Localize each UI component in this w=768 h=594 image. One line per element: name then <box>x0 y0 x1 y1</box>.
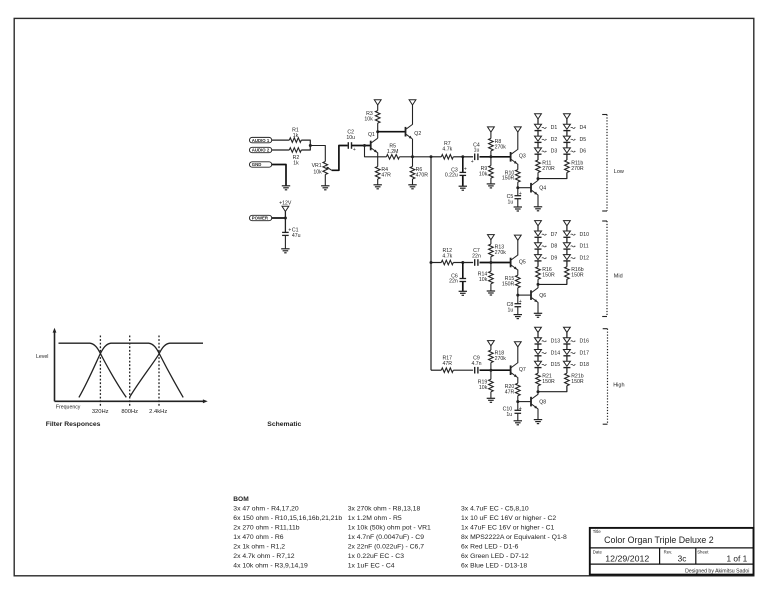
bracket High <box>603 329 625 425</box>
wire Q5 emitter to R15 <box>517 270 519 276</box>
svg-text:D8: D8 <box>551 244 558 250</box>
svg-text:Q7: Q7 <box>519 367 526 373</box>
wire R8 to node <box>490 151 492 157</box>
svg-text:Level: Level <box>36 354 48 360</box>
wire AUDIO1 to R1 <box>272 139 290 141</box>
graph dotted line 320Hz <box>99 336 101 406</box>
label BOM <box>233 496 249 503</box>
svg-text:Filter Responces: Filter Responces <box>46 421 101 428</box>
svg-text:150R: 150R <box>502 176 515 182</box>
node feed mid <box>430 261 433 264</box>
BOM column3 line 7 <box>461 563 527 570</box>
svg-text:1x 10 uF EC 16V or higher - C2: 1x 10 uF EC 16V or higher - C2 <box>461 515 556 522</box>
svg-text:47R: 47R <box>381 172 391 178</box>
svg-text:6x Green LED - D7-12: 6x Green LED - D7-12 <box>461 553 529 560</box>
svg-text:Designed by Akimitsu Sadoi: Designed by Akimitsu Sadoi <box>685 568 749 574</box>
node Q8 collector <box>537 390 540 393</box>
wire Q1 collector to Q2 base <box>378 131 406 133</box>
capacitor C5 <box>507 191 522 205</box>
graph X axis <box>55 399 208 403</box>
svg-text:D10: D10 <box>580 232 590 238</box>
resistor R7 <box>441 141 453 159</box>
title block rev text <box>678 553 687 563</box>
svg-text:2x 1k ohm - R1,2: 2x 1k ohm - R1,2 <box>233 544 285 551</box>
wire R11b down <box>566 173 568 179</box>
svg-text:D13: D13 <box>551 339 561 345</box>
wire D13 cathode <box>537 344 539 350</box>
node C6 <box>461 261 464 264</box>
wire R16 down <box>537 279 539 284</box>
curve low-pass <box>59 343 127 397</box>
BOM column2 line 1 <box>348 506 421 513</box>
wire C7 to Q5 base <box>480 262 511 264</box>
ground under Q4 <box>534 207 542 211</box>
BOM column3 line 3 <box>461 525 555 532</box>
svg-text:4.7n: 4.7n <box>471 361 481 367</box>
resistor R11 <box>536 160 555 173</box>
svg-text:10k: 10k <box>313 170 322 176</box>
wire C6 node to C7 <box>463 262 473 264</box>
svg-text:10k: 10k <box>479 277 488 283</box>
svg-text:270k: 270k <box>495 144 507 150</box>
wire VR1 to ground <box>324 175 326 186</box>
wire R12 to C6 node <box>453 262 463 264</box>
wire C4 to Q3 base <box>480 156 511 158</box>
BOM column2 line 3 <box>348 525 431 532</box>
svg-text:Q4: Q4 <box>539 185 546 191</box>
ground under R19 <box>487 398 495 402</box>
resistor R12 <box>441 248 453 265</box>
svg-text:D16: D16 <box>580 339 590 345</box>
node Q4 base <box>516 186 519 189</box>
svg-text:D11: D11 <box>580 244 589 250</box>
wire R9 to ground <box>490 178 492 184</box>
potentiometer VR1 <box>312 162 332 176</box>
wire joining mid LED strings <box>538 279 567 284</box>
transistor Q7 <box>511 363 526 378</box>
wire D9 to R16 <box>537 261 539 267</box>
BOM column1 line 4 <box>233 534 283 541</box>
svg-text:22n: 22n <box>449 279 458 285</box>
power symbol above Q5 <box>514 235 521 240</box>
svg-text:4.7k: 4.7k <box>442 147 452 153</box>
ground under R6 <box>408 185 416 189</box>
wire D10 cathode <box>566 237 568 243</box>
svg-text:270k: 270k <box>495 356 507 362</box>
wire D3 to R11 <box>537 154 539 160</box>
svg-text:Q1: Q1 <box>368 132 375 138</box>
LED D16 <box>563 338 589 345</box>
LED D2 <box>535 136 558 143</box>
power symbol above R3 <box>374 100 381 105</box>
ground under C1 <box>281 249 289 253</box>
wire V+ to R3 <box>377 105 379 111</box>
svg-text:2x 270 ohm - R11,11b: 2x 270 ohm - R11,11b <box>233 525 299 532</box>
wire R2 to node <box>301 146 310 151</box>
svg-text:+12V: +12V <box>279 200 292 206</box>
resistor R3 <box>364 111 380 123</box>
bracket Mid <box>602 221 622 317</box>
title block sheet text <box>727 553 748 563</box>
wire R10 to C5 <box>517 182 519 196</box>
connector AUDIO 2 <box>250 147 272 152</box>
LED D12 <box>563 255 589 262</box>
svg-text:1 of 1: 1 of 1 <box>727 553 748 563</box>
wire C5 to ground <box>517 199 519 207</box>
svg-text:2.4kHz: 2.4kHz <box>149 409 167 415</box>
node feed low <box>430 155 433 158</box>
wire R4 to ground <box>377 179 379 185</box>
capacitor C6 <box>449 263 466 285</box>
wire Q8 emitter to ground <box>537 409 539 420</box>
resistor R9 <box>479 157 493 178</box>
wire D1 cathode <box>537 131 539 137</box>
svg-text:Low: Low <box>614 169 624 175</box>
title block label Title <box>593 529 602 534</box>
ground under R14 <box>487 291 495 295</box>
transistor Q2 <box>406 124 422 139</box>
svg-text:1u: 1u <box>474 148 480 154</box>
wire V+ to D13 <box>537 332 539 337</box>
resistor R4 <box>375 167 391 180</box>
graph label Level <box>36 354 48 360</box>
wire Q7 emitter to R20 <box>517 377 519 383</box>
node C3 <box>461 155 464 158</box>
svg-text:47R: 47R <box>505 389 515 395</box>
connector POWER <box>250 215 272 220</box>
wire node to Q8 base <box>518 401 531 403</box>
graph dotted line 2.4kHz <box>158 336 160 406</box>
svg-text:150R: 150R <box>502 281 515 287</box>
wire Q2 node to R6 <box>412 157 414 167</box>
resistor R13 <box>489 240 507 257</box>
svg-text:150R: 150R <box>571 273 584 279</box>
wire R21b down <box>566 386 568 392</box>
svg-text:12/29/2012: 12/29/2012 <box>605 553 649 563</box>
wire R15 to C8 <box>517 288 519 304</box>
node Q4 collector <box>537 177 540 180</box>
power symbol +12V <box>282 206 289 211</box>
BOM column2 line 5 <box>348 544 425 551</box>
wire R17 to C9 <box>453 369 473 371</box>
resistor R1 <box>289 127 301 142</box>
resistor R21b <box>565 373 584 386</box>
svg-text:+: + <box>464 167 467 173</box>
power symbol above D1 string <box>535 114 542 119</box>
transistor Q1 <box>368 132 378 153</box>
power symbol above Q7 <box>514 342 521 347</box>
svg-text:Date: Date <box>593 549 603 554</box>
power symbol above Q2 <box>409 100 416 105</box>
ground under C3 <box>459 186 467 190</box>
wire Q2 node to feed node <box>413 156 432 158</box>
BOM column1 line 7 <box>233 563 308 570</box>
resistor R20 <box>505 383 520 396</box>
svg-text:D15: D15 <box>551 362 561 368</box>
wire D18 to R21b <box>566 368 568 374</box>
wire R3 to Q1 collector <box>377 123 379 132</box>
capacitor C9 <box>471 355 481 373</box>
ground under C5 <box>514 207 522 211</box>
LED D14 <box>535 350 561 357</box>
svg-text:1x 1uF EC - C4: 1x 1uF EC - C4 <box>348 563 395 570</box>
svg-text:270R: 270R <box>571 166 584 172</box>
wire GND to ground <box>272 165 286 186</box>
title block divider date-rev <box>659 548 661 564</box>
LED D3 <box>535 148 558 155</box>
wire node to VR1 <box>310 146 325 162</box>
wire R16b down <box>566 279 568 284</box>
bracket Low <box>602 115 624 212</box>
svg-text:6x Blue LED - D13-18: 6x Blue LED - D13-18 <box>461 563 527 570</box>
wire +12V to C1 <box>284 212 286 233</box>
svg-text:D12: D12 <box>580 255 590 261</box>
BOM column3 line 5 <box>461 544 519 551</box>
wire feed corner to R17 <box>431 369 441 371</box>
wire R18 to node <box>490 363 492 371</box>
svg-text:D14: D14 <box>551 350 561 356</box>
BOM column1 line 2 <box>233 515 342 522</box>
resistor R2 <box>289 148 301 167</box>
wire C6 to ground <box>462 282 464 292</box>
graph Y axis <box>53 328 57 402</box>
wire D15 to R21 <box>537 368 539 374</box>
capacitor C3 <box>445 157 467 179</box>
wire Q1 base node to R5 <box>365 146 387 157</box>
BOM column3 line 2 <box>461 515 556 522</box>
wire D8 cathode <box>537 249 539 255</box>
wire R13 to node <box>490 257 492 263</box>
wire C3 node to C4 <box>463 156 473 158</box>
power symbol above R13 <box>488 235 495 240</box>
LED D13 <box>535 338 561 345</box>
svg-text:D17: D17 <box>580 350 590 356</box>
wire C9 to Q7 base <box>480 369 511 371</box>
resistor R8 <box>489 132 507 151</box>
svg-text:150R: 150R <box>542 379 555 385</box>
BOM column1 line 5 <box>233 544 285 551</box>
power symbol above R8 <box>488 127 495 132</box>
wire D14 cathode <box>537 356 539 362</box>
wire main vertical feed <box>430 157 432 370</box>
svg-text:150R: 150R <box>542 273 555 279</box>
title block divider rev-sheet <box>695 548 697 564</box>
svg-text:1u: 1u <box>508 199 514 205</box>
transistor Q3 <box>511 150 526 165</box>
ground under GND connector <box>282 186 290 190</box>
power symbol above D10 string <box>564 221 571 226</box>
wire Q1 emitter to R4 <box>377 153 379 167</box>
wire C8 to ground <box>517 307 519 315</box>
svg-text:D7: D7 <box>551 232 558 238</box>
svg-text:Q3: Q3 <box>519 154 526 160</box>
capacitor C7 <box>472 248 481 266</box>
svg-text:1x 0.22uF EC - C3: 1x 0.22uF EC - C3 <box>348 553 405 560</box>
svg-text:D18: D18 <box>580 362 590 368</box>
LED D17 <box>563 350 589 357</box>
curve band-pass <box>79 343 183 397</box>
wire R1 to node <box>301 140 310 145</box>
BOM column2 line 4 <box>348 534 425 541</box>
svg-text:270R: 270R <box>542 166 555 172</box>
svg-text:D1: D1 <box>551 125 558 131</box>
wire V+ to D10 <box>566 226 568 231</box>
LED D7 <box>535 231 558 238</box>
title block date text <box>605 553 649 563</box>
svg-text:GND: GND <box>252 162 262 167</box>
svg-text:Mid: Mid <box>614 274 623 280</box>
resistor R21 <box>536 373 555 386</box>
wire R11 down <box>537 173 539 179</box>
wire Q1 collector <box>377 132 379 139</box>
BOM column2 line 2 <box>348 515 402 522</box>
wire Q2 emitter down <box>412 139 414 157</box>
resistor R16b <box>565 267 584 280</box>
svg-text:10k: 10k <box>479 385 488 391</box>
BOM column2 line 7 <box>348 563 395 570</box>
wire AUDIO2 to R2 <box>272 149 290 151</box>
resistor R18 <box>489 346 507 363</box>
resistor R15 <box>502 275 520 288</box>
wire R7 to C3 node <box>453 156 463 158</box>
ground under Q6 <box>534 313 542 317</box>
graph label 320Hz <box>92 409 109 415</box>
svg-text:1u: 1u <box>506 412 512 418</box>
svg-text:+: + <box>353 147 356 153</box>
label Filter Responces <box>46 421 101 428</box>
wire POWER to node <box>272 217 286 219</box>
LED D11 <box>563 243 588 250</box>
svg-text:4x 10k ohm - R3,9,14,19: 4x 10k ohm - R3,9,14,19 <box>233 563 308 570</box>
transistor Q4 <box>531 180 546 195</box>
svg-text:D4: D4 <box>580 125 587 131</box>
wire Q4 emitter to ground <box>537 195 539 207</box>
wire D7 cathode <box>537 237 539 243</box>
ground under C8 <box>514 315 522 319</box>
svg-text:1x 1.2M ohm - R5: 1x 1.2M ohm - R5 <box>348 515 402 522</box>
wire joining low LED strings <box>538 173 567 179</box>
ground under R9 <box>487 184 495 188</box>
svg-text:10k: 10k <box>479 171 488 177</box>
svg-text:Q2: Q2 <box>414 131 421 137</box>
svg-text:AUDIO 2: AUDIO 2 <box>252 148 270 153</box>
svg-text:2x 22nF (0.022uF) - C6,7: 2x 22nF (0.022uF) - C6,7 <box>348 544 425 551</box>
ground under R4 <box>374 185 382 189</box>
capacitor C8 <box>507 299 522 313</box>
node Q1 collector <box>376 130 379 133</box>
node Q2 emitter <box>411 155 414 158</box>
wire D11 cathode <box>566 249 568 255</box>
svg-text:D9: D9 <box>551 255 558 261</box>
wire joining high LED strings <box>538 386 567 392</box>
node R18 R19 high <box>489 369 492 372</box>
ground under VR1 <box>321 186 329 190</box>
wire D4 cathode <box>566 131 568 137</box>
capacitor C2 <box>346 130 356 153</box>
ground under C6 <box>459 291 467 295</box>
wire D12 to R16b <box>566 261 568 267</box>
svg-text:1x 4.7nF (0.0047uF) - C9: 1x 4.7nF (0.0047uF) - C9 <box>348 534 425 541</box>
resistor R5 <box>386 144 399 160</box>
svg-text:Q6: Q6 <box>539 293 546 299</box>
svg-text:D3: D3 <box>551 149 558 155</box>
capacitor C10 <box>503 406 522 418</box>
wire D6 to R11b <box>566 154 568 160</box>
svg-text:800Hz: 800Hz <box>121 409 138 415</box>
svg-text:AUDIO 1: AUDIO 1 <box>252 138 270 143</box>
capacitor C4 <box>471 142 480 165</box>
svg-text:3x 47 ohm - R4,17,20: 3x 47 ohm - R4,17,20 <box>233 506 299 513</box>
resistor R11b <box>565 160 584 173</box>
resistor R14 <box>478 263 493 284</box>
svg-text:270k: 270k <box>495 250 507 256</box>
title block row line 1 <box>590 547 754 549</box>
svg-text:470R: 470R <box>416 172 429 178</box>
svg-text:2x 4.7k ohm - R7,12: 2x 4.7k ohm - R7,12 <box>233 553 294 560</box>
LED D15 <box>535 361 561 368</box>
svg-text:Sheet: Sheet <box>697 549 709 554</box>
node R8 R9 low <box>489 155 492 158</box>
ground under Q8 <box>534 420 542 424</box>
BOM column1 line 6 <box>233 553 294 560</box>
svg-text:3c: 3c <box>678 553 687 563</box>
svg-text:1x 470 ohm - R6: 1x 470 ohm - R6 <box>233 534 283 541</box>
label +12V <box>279 200 292 206</box>
svg-text:High: High <box>613 383 624 389</box>
node Q8 base <box>516 400 519 403</box>
wire R5 to Q2 emitter node <box>399 156 412 158</box>
capacitor C1 <box>282 228 301 240</box>
graph dotted line 800Hz <box>129 336 131 406</box>
graph label Frequency <box>56 405 81 411</box>
wire node to Q6 base <box>518 294 531 296</box>
wire Q3 emitter to R10 <box>517 164 519 170</box>
title block label Sheet <box>697 549 709 554</box>
LED D5 <box>563 136 586 143</box>
resistor R10 <box>502 170 520 183</box>
svg-text:D6: D6 <box>580 149 587 155</box>
svg-text:0.22u: 0.22u <box>445 173 458 179</box>
svg-text:Q8: Q8 <box>539 399 546 405</box>
wire R14 to ground <box>490 284 492 291</box>
svg-text:Schematic: Schematic <box>267 421 301 428</box>
wire R6 to ground <box>412 179 414 185</box>
title block row line 2 <box>590 563 754 565</box>
svg-text:1x 10k (50k) ohm pot - VR1: 1x 10k (50k) ohm pot - VR1 <box>348 525 431 532</box>
graph label 800Hz <box>121 409 138 415</box>
node Q6 base <box>516 294 519 297</box>
resistor R19 <box>478 370 493 392</box>
svg-text:VR1: VR1 <box>312 163 322 169</box>
node input mix junction <box>309 144 312 147</box>
graph label 2.4kHz <box>149 409 167 415</box>
wire V+ to D7 <box>537 226 539 231</box>
svg-text:6x Red LED - D1-6: 6x Red LED - D1-6 <box>461 544 519 551</box>
BOM column1 line 3 <box>233 525 299 532</box>
wire Q8 collector to LEDs <box>537 392 539 395</box>
ground under C10 <box>514 421 522 425</box>
LED D4 <box>563 124 586 131</box>
BOM column1 line 1 <box>233 506 299 513</box>
connector GND <box>250 162 272 167</box>
wire V+ to D1 <box>537 119 539 124</box>
transistor Q6 <box>531 288 546 303</box>
svg-text:10k: 10k <box>364 116 373 122</box>
wire feed to R7 <box>431 156 441 158</box>
wire R19 to ground <box>490 392 492 399</box>
label Schematic <box>267 421 301 428</box>
svg-text:1x 47uF EC 16V or higher - C1: 1x 47uF EC 16V or higher - C1 <box>461 525 555 532</box>
